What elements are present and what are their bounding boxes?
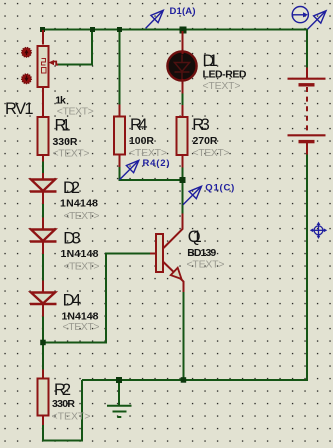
svg-text:D1(A): D1(A) xyxy=(170,6,196,17)
svg-text:D3: D3 xyxy=(63,229,81,247)
svg-text:D4: D4 xyxy=(63,291,82,309)
svg-text:D2: D2 xyxy=(63,179,80,197)
svg-text:1N4148: 1N4148 xyxy=(60,198,98,210)
svg-text:<TEXT>: <TEXT> xyxy=(52,410,91,422)
svg-text:Q1: Q1 xyxy=(188,228,202,246)
svg-text:1N4148: 1N4148 xyxy=(61,248,99,260)
svg-text:R1: R1 xyxy=(55,117,71,135)
svg-text:<TEXT>: <TEXT> xyxy=(193,147,230,159)
svg-text:<TEXT>: <TEXT> xyxy=(64,260,100,272)
svg-text:<TEXT>: <TEXT> xyxy=(53,147,90,159)
svg-text:Q1(C): Q1(C) xyxy=(205,183,234,194)
svg-text:330R: 330R xyxy=(52,398,75,410)
svg-text:R4: R4 xyxy=(130,116,148,134)
svg-text:D1: D1 xyxy=(203,52,219,70)
svg-text:RV1: RV1 xyxy=(5,100,34,118)
svg-text:<TEXT>: <TEXT> xyxy=(64,210,100,222)
svg-text:R2: R2 xyxy=(54,381,71,399)
svg-text:<TEXT>: <TEXT> xyxy=(203,80,241,92)
svg-text:<TEXT>: <TEXT> xyxy=(63,321,100,333)
svg-text:LED-RED: LED-RED xyxy=(203,69,247,81)
svg-text:270R: 270R xyxy=(193,135,218,147)
svg-text:330R: 330R xyxy=(53,136,78,148)
svg-text:<TEXT>: <TEXT> xyxy=(187,259,225,271)
svg-text:<TEXT>: <TEXT> xyxy=(57,105,94,117)
svg-text:100R: 100R xyxy=(129,135,154,147)
svg-text:BD139: BD139 xyxy=(187,247,216,259)
svg-text:R3: R3 xyxy=(192,116,210,134)
svg-text:R4(2): R4(2) xyxy=(143,158,170,169)
